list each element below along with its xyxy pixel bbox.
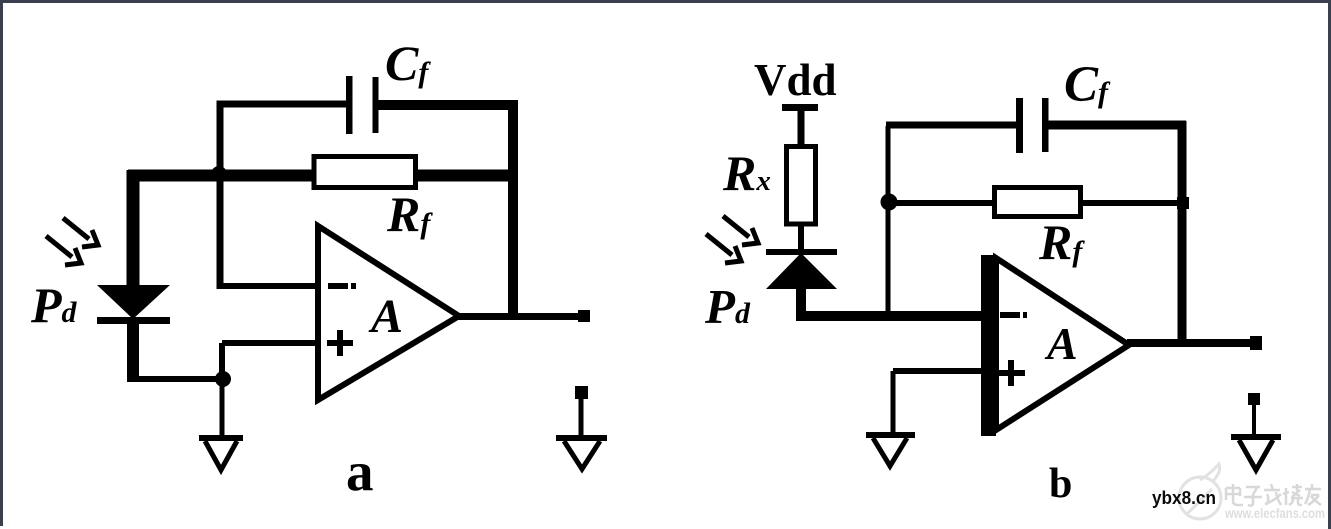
frame top bar: [0, 0, 1331, 3]
resistor Rx: [787, 147, 816, 225]
frame left bar: [0, 0, 3, 526]
wire: left vertical feedback: [217, 101, 224, 290]
capacitor Cf (b) right plate: [1042, 98, 1049, 152]
ground (b, left): [866, 435, 915, 466]
ground (b, right) terminal square: [1248, 393, 1260, 405]
wire: + input down to ground: [891, 371, 896, 435]
wire: inverting input horizontal: [217, 283, 320, 289]
wire: left feedback vertical: [886, 126, 891, 316]
op-amp U2 (b) input bar: [981, 255, 996, 436]
wire: right vertical thick feedback: [508, 100, 518, 318]
node junction dot (feedback tap): [211, 166, 227, 182]
wire: Rx to photodiode: [798, 224, 804, 254]
U2 minus input mark: [1000, 312, 1020, 318]
ground (a, right): [556, 399, 607, 469]
svg-text:Vdd: Vdd: [754, 55, 837, 105]
U1 minus input mark: [328, 283, 348, 289]
photodiode Pd (a) triangle: [97, 285, 170, 319]
发: [1264, 484, 1281, 505]
wire: bottom horizontal to junction: [128, 376, 226, 382]
ground (b, right): [1231, 405, 1281, 470]
resistor Rf (b): [995, 188, 1081, 217]
wire: Cf top-left thin segment: [217, 101, 347, 108]
svg-text:www.elecfans.com: www.elecfans.com: [1224, 505, 1325, 521]
resistor Rf (a): [314, 157, 416, 188]
电: [1226, 484, 1243, 505]
watermark chinese characters (vector strokes): [1226, 484, 1321, 506]
op-amp U1 (a): [318, 226, 459, 400]
wire: Cf left thin segment: [886, 122, 1016, 129]
wire: non-inverting input horizontal: [893, 368, 982, 374]
wire: output: [1127, 339, 1256, 347]
wire: Cf right thick segment: [1045, 121, 1186, 130]
light arrows into Pd (a): [46, 218, 98, 265]
capacitor Cf (b) left plate: [1016, 98, 1023, 153]
wire: junction up to + input: [219, 343, 225, 382]
light arrows into Pd (b): [706, 216, 758, 263]
wire: right feedback vertical: [1178, 121, 1187, 345]
wire: thick middle horizontal through Rf: [128, 170, 513, 182]
svg-text:b: b: [1049, 461, 1072, 507]
watermark logo circle: [1179, 464, 1221, 519]
capacitor Cf (a) right plate: [373, 77, 379, 133]
ground (a, left): [199, 438, 243, 470]
烧: [1283, 484, 1303, 505]
ground (a, right) terminal square: [575, 386, 588, 399]
node junction dot (b left feedback): [881, 194, 898, 211]
svg-text:ybx8.cn: ybx8.cn: [1152, 488, 1216, 508]
photodiode Pd (b) triangle: [766, 253, 837, 289]
wire: non-inverting input horizontal: [222, 340, 320, 346]
子: [1244, 487, 1262, 506]
photodiode Pd (b) cathode bar: [766, 249, 837, 255]
svg-text:a: a: [346, 441, 374, 502]
wire: output: [457, 313, 582, 320]
node junction square (b right feedback): [1177, 197, 1189, 209]
wire: photodiode anode vertical: [127, 170, 140, 288]
node junction dot (bottom): [215, 371, 231, 387]
op-amp U2 (b) triangle: [996, 258, 1129, 430]
U2 plus input mark: [999, 370, 1025, 376]
U1 plus input mark: [327, 340, 353, 346]
svg-text:A: A: [368, 290, 403, 343]
wire: junction down to ground: [220, 379, 225, 438]
svg-text:A: A: [1044, 318, 1078, 369]
frame right bar: [1328, 0, 1331, 529]
wire: photodiode cathode vertical: [127, 322, 139, 382]
wire: photodiode anode down: [796, 287, 806, 318]
wire: thick input horizontal to op-amp: [796, 311, 982, 321]
wire: Rf horizontal: [889, 200, 1182, 206]
photodiode Pd (a) cathode bar: [97, 317, 170, 324]
output terminal square (b): [1250, 336, 1262, 350]
output terminal square (a): [578, 310, 590, 322]
Vdd terminal bar: [782, 104, 818, 111]
capacitor Cf (a) left plate: [346, 76, 353, 134]
wire: Vdd to Rx: [798, 108, 805, 148]
友: [1305, 484, 1321, 505]
wire: Cf top-right thick segment: [374, 100, 518, 110]
